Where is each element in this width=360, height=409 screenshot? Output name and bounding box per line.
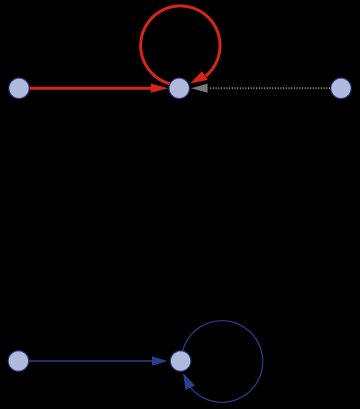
wire navy edge D to E <box>29 360 153 362</box>
wire gray dotted edge C to B <box>210 87 331 89</box>
node C <box>331 78 351 98</box>
node A <box>9 78 29 98</box>
wire red edge A to B <box>30 87 152 90</box>
node E <box>170 351 190 371</box>
arrowhead navy self-loop <box>183 373 195 390</box>
node D <box>8 351 28 371</box>
arrowhead navy edge D to E <box>152 356 168 365</box>
self-loop navy on node E <box>183 321 263 403</box>
arrowhead red self-loop <box>190 71 208 83</box>
arrowhead gray edge C to B <box>191 84 208 93</box>
arrowhead red edge A to B <box>151 84 169 93</box>
self-loop red on node B <box>141 6 220 84</box>
node B <box>169 78 189 98</box>
